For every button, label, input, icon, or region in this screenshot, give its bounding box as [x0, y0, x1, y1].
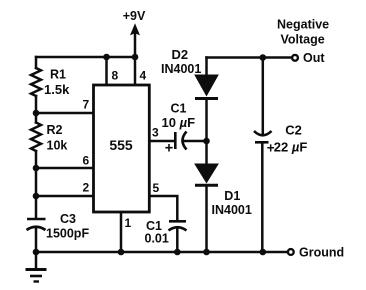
svg-text:22 µF: 22 µF: [274, 139, 308, 154]
node pin1/ground rail: [118, 249, 125, 256]
node R2 bottom pin6: [33, 165, 40, 172]
svg-text:10 µF: 10 µF: [162, 115, 196, 130]
svg-text:IN4001: IN4001: [161, 62, 201, 76]
capacitor C1 10uF (electrolytic, pin 3 coupling): [175, 132, 186, 150]
label R1 value: [44, 68, 70, 97]
svg-text:7: 7: [83, 98, 90, 112]
svg-text:8: 8: [112, 69, 119, 83]
capacitor C2 22uF (electrolytic, output filter): [254, 131, 272, 142]
wire Out rail: [207, 56, 292, 59]
wire R1 to R2: [35, 96, 38, 123]
node C2/ground rail: [260, 249, 267, 256]
wire C2 bottom lead: [261, 142, 264, 252]
svg-text:C1: C1: [171, 101, 187, 115]
node pin8/rail: [103, 54, 110, 61]
svg-text:0.01: 0.01: [145, 232, 169, 246]
wire node A to D1 anode: [205, 141, 208, 164]
wire diode column top to Out rail: [205, 58, 208, 76]
node R1-R2 pin7: [33, 110, 40, 117]
wire pin 3: [149, 140, 174, 143]
resistor R1: [31, 68, 41, 96]
node D1/ground rail: [203, 249, 210, 256]
wire C1 to node A: [184, 140, 207, 143]
wire +9V lead: [134, 34, 137, 57]
diode D2: [161, 47, 218, 99]
ground symbol: [26, 270, 47, 282]
wire pin 7: [36, 112, 94, 115]
wire pin 5: [149, 196, 177, 221]
svg-text:IN4001: IN4001: [212, 203, 252, 217]
svg-text:5: 5: [153, 181, 160, 195]
label C2 value: [267, 123, 308, 156]
svg-text:+9V: +9V: [123, 9, 146, 23]
svg-text:1: 1: [125, 216, 132, 230]
svg-text:2: 2: [83, 181, 90, 195]
wire pin 1 drop: [120, 212, 123, 252]
svg-text:+: +: [165, 140, 173, 156]
wire left column top (rail to R1): [35, 57, 38, 68]
svg-text:Voltage: Voltage: [281, 33, 325, 47]
svg-text:4: 4: [140, 69, 147, 83]
wire ground rail: [36, 251, 288, 254]
label R2 value: [47, 123, 68, 153]
svg-text:1500pF: 1500pF: [46, 227, 89, 241]
svg-text:Negative: Negative: [277, 18, 329, 32]
wire pin 8 drop: [105, 57, 108, 85]
svg-text:1.5k: 1.5k: [44, 82, 70, 97]
svg-text:3: 3: [152, 126, 159, 140]
wire C2 top lead: [262, 58, 265, 134]
wire C3 bottom lead: [35, 229, 38, 252]
wire 0.01 cap to ground rail: [176, 228, 179, 252]
capacitor C1 0.01 (pin 5 bypass): [169, 221, 187, 230]
node C2/Out rail: [260, 54, 267, 61]
svg-text:555: 555: [109, 137, 133, 153]
resistor R2: [31, 123, 41, 152]
node Out terminal: [277, 18, 329, 65]
svg-text:D1: D1: [224, 189, 240, 203]
svg-text:Ground: Ground: [299, 246, 344, 260]
wire ground stem: [35, 252, 38, 269]
capacitor C3: [27, 219, 46, 230]
wire D1 cathode to ground rail: [205, 186, 208, 252]
svg-text:6: 6: [83, 154, 90, 168]
wire D2 cathode to node A: [205, 99, 208, 141]
wire pin 6: [36, 167, 94, 170]
svg-text:D2: D2: [172, 47, 189, 62]
wire pin 4 drop: [134, 57, 137, 85]
op-amp U1 555 timer IC body: [94, 85, 150, 212]
svg-text:Out: Out: [303, 51, 325, 65]
wire R2 down to C3: [35, 151, 38, 218]
node Ground terminal: [288, 246, 344, 260]
svg-text:R1: R1: [50, 68, 66, 82]
svg-text:C2: C2: [285, 123, 302, 138]
node pin4/rail: [132, 54, 139, 61]
label C1 0.01: [145, 219, 169, 246]
node A C1/D1/D2: [203, 138, 210, 145]
label C1 10uF: [162, 101, 196, 156]
svg-text:10k: 10k: [47, 139, 68, 153]
diode D1: [195, 164, 252, 217]
+9V supply arrow: [123, 9, 146, 35]
wire pin 2: [36, 195, 94, 198]
node pin2/C3: [33, 193, 40, 200]
svg-text:R2: R2: [47, 123, 63, 137]
svg-text:C3: C3: [60, 212, 76, 226]
wire top +9V rail: [36, 56, 135, 59]
label C3 value: [46, 212, 89, 241]
node 0.01 cap/ground rail: [174, 249, 181, 256]
node C3/ground rail: [33, 249, 40, 256]
pin labels: [83, 69, 160, 231]
